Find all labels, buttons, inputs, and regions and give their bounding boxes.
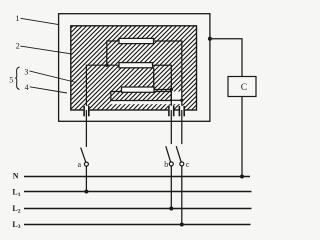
bushing c xyxy=(179,106,185,117)
switch a blade xyxy=(81,148,86,163)
switch b contact xyxy=(169,162,173,166)
wire: capacitor to N xyxy=(241,97,243,177)
inner hatched box (4) xyxy=(111,92,172,101)
wire: bar1 left lead xyxy=(107,41,119,65)
bushing a xyxy=(83,106,89,117)
white recess around inner box (3/4 layers) xyxy=(111,92,182,105)
svg-text:3: 3 xyxy=(24,68,28,77)
wire: bar2 right lead down to node b xyxy=(153,65,172,110)
bushing b xyxy=(168,106,174,117)
bus L1 xyxy=(24,191,252,193)
switch b blade xyxy=(166,146,171,162)
svg-text:N: N xyxy=(13,172,19,181)
junction: case tap xyxy=(208,37,212,41)
enclosure case (1) xyxy=(59,14,210,122)
capacitor C box xyxy=(228,77,256,97)
wire: lead b down to switch xyxy=(170,110,172,144)
wire: lead c down to switch xyxy=(181,110,183,144)
bus N xyxy=(24,176,250,178)
wire: switch c to L3 xyxy=(181,166,183,225)
svg-text:a: a xyxy=(77,160,81,169)
heating element bar1 xyxy=(119,38,154,43)
junction: C wire on N xyxy=(240,175,244,179)
junction: bar1 lead on layer3 edge xyxy=(105,63,108,66)
junction: c on L3 xyxy=(180,223,184,227)
svg-text:1: 1 xyxy=(16,14,20,23)
brace for 5 xyxy=(15,67,19,89)
switch c blade xyxy=(176,146,181,162)
hatched body (2) xyxy=(71,26,197,110)
leader 1 xyxy=(21,18,59,24)
electrode plate top edge (layer 3) xyxy=(86,65,119,110)
heating element bar3 xyxy=(122,87,155,92)
wire: bar2 to inner box xyxy=(153,68,155,92)
svg-text:5: 5 xyxy=(9,76,13,85)
switch c contact xyxy=(180,162,184,166)
bus L2 xyxy=(24,208,252,210)
wire: switch b to L2 xyxy=(170,166,172,209)
junction: b on L2 xyxy=(169,207,173,211)
svg-text:b: b xyxy=(164,160,168,169)
wire: lead a down to switch xyxy=(85,110,87,147)
junction: bar3 lead on wire b xyxy=(170,88,173,91)
wire: switch a to L1 xyxy=(85,166,87,191)
junction: inner box edge on wire c xyxy=(180,99,183,102)
svg-text:c: c xyxy=(186,160,190,169)
svg-text:4: 4 xyxy=(25,83,29,92)
svg-text:C: C xyxy=(241,83,247,93)
bus L3 xyxy=(24,224,251,226)
heating element bar2 xyxy=(119,63,153,68)
wire: bar3 right lead xyxy=(154,89,171,91)
switch a contact xyxy=(84,162,88,166)
junction: a on L1 xyxy=(84,190,88,194)
wire: case to capacitor C xyxy=(210,39,242,77)
leader 3 xyxy=(29,71,76,83)
wire: bar1 right lead down to node c xyxy=(154,41,182,110)
svg-text:2: 2 xyxy=(16,42,20,51)
leader 2 xyxy=(20,46,70,54)
leader 4 xyxy=(30,87,67,93)
wire: inner box bottom edge to node xyxy=(171,99,182,101)
